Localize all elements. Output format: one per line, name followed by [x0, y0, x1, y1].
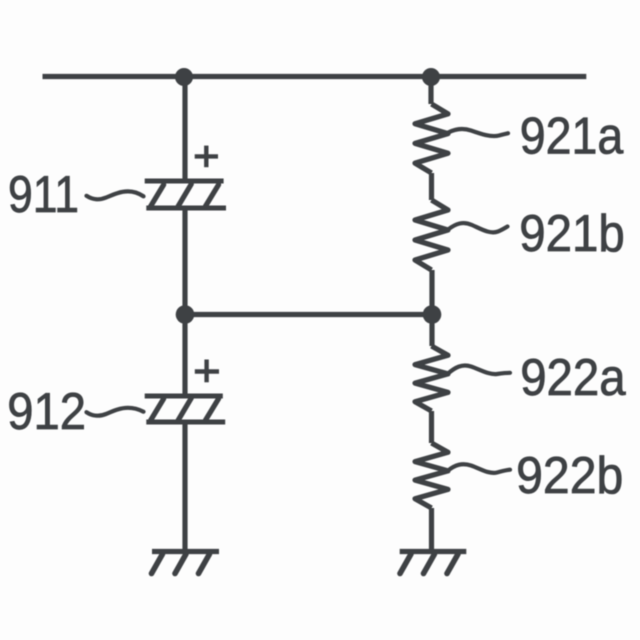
capacitor 911 hatch — [151, 184, 219, 206]
resistor 922b — [415, 443, 448, 508]
leader squiggle for 921b — [448, 223, 508, 232]
leader squiggle for 911 — [87, 191, 144, 199]
resistor 921b — [415, 200, 448, 270]
wire left branch upper — [182, 77, 187, 181]
svg-text:921b: 921b — [519, 205, 625, 263]
svg-text:912: 912 — [7, 383, 86, 441]
leader squiggle for 922b — [448, 464, 510, 473]
wire middle horizontal — [185, 312, 432, 317]
ground left — [152, 552, 220, 574]
node top-left junction — [175, 68, 193, 86]
capacitor 911 plates — [145, 181, 226, 208]
node mid-left junction — [176, 305, 195, 324]
capacitor 912 hatch — [151, 398, 219, 420]
wire 922b to ground — [429, 508, 434, 552]
wire left branch lower — [182, 315, 187, 397]
wire 921b to mid node — [429, 270, 434, 315]
wire mid node to 922a — [429, 315, 434, 347]
svg-text:921a: 921a — [520, 108, 624, 166]
resistor 922a — [415, 346, 448, 411]
capacitor 912 plates — [145, 396, 226, 422]
leader squiggle for 912 — [87, 408, 144, 416]
svg-text:911: 911 — [8, 166, 79, 224]
ground right — [400, 552, 467, 574]
leader squiggle for 921a — [448, 129, 508, 136]
svg-text:922b: 922b — [516, 447, 623, 505]
plus sign of 911 — [195, 146, 218, 168]
resistor 921a — [415, 104, 448, 173]
wire between 922a and 922b — [429, 411, 434, 443]
svg-text:922a: 922a — [520, 349, 626, 407]
node top-right junction — [422, 68, 440, 86]
leader squiggle for 922a — [448, 365, 510, 374]
wire top rail — [43, 74, 587, 79]
wire right branch top — [428, 77, 433, 104]
wire left branch to ground — [182, 422, 187, 552]
wire between 921a and 921b — [429, 173, 434, 200]
wire left branch mid — [182, 208, 187, 315]
node mid-right junction — [423, 305, 442, 324]
plus sign of 912 — [195, 360, 219, 383]
